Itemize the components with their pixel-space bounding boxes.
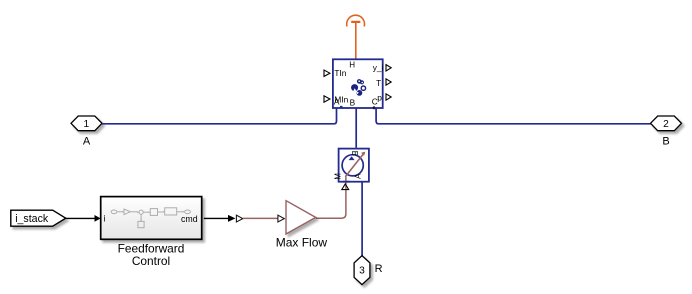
output triangle p bbox=[386, 94, 391, 100]
wire block C port to port2 bbox=[376, 108, 651, 123]
wire port1 to block A port bbox=[102, 108, 337, 123]
port tick C bbox=[373, 106, 375, 109]
i_stack signal tag bbox=[11, 210, 66, 226]
svg-text:2: 2 bbox=[663, 119, 669, 130]
outport 2 (B) hexagon bbox=[651, 116, 682, 131]
wire max flow to valve M (physical signal) bbox=[316, 177, 346, 219]
input triangle MIn bbox=[324, 96, 330, 102]
svg-text:T: T bbox=[376, 78, 381, 88]
svg-text:y_i: y_i bbox=[373, 62, 384, 72]
svg-text:i: i bbox=[104, 213, 106, 223]
wire feedforward to converter bbox=[204, 217, 228, 219]
svg-text:B: B bbox=[662, 136, 669, 148]
svg-text:p: p bbox=[377, 93, 382, 103]
svg-text:A: A bbox=[353, 173, 362, 179]
svg-text:TIn: TIn bbox=[334, 68, 346, 78]
valve block bbox=[339, 149, 369, 182]
svg-text:C: C bbox=[372, 96, 378, 106]
valve diagonal arrow bbox=[345, 152, 364, 176]
converter filled arrowhead bbox=[228, 215, 235, 222]
valve M input triangle bbox=[342, 184, 349, 190]
input triangle TIn bbox=[324, 70, 330, 76]
arrowhead into feedforward bbox=[95, 215, 101, 222]
svg-text:Control: Control bbox=[132, 254, 170, 268]
svg-text:1: 1 bbox=[83, 119, 89, 130]
svg-text:i_stack: i_stack bbox=[15, 213, 49, 225]
inport 1 (A) hexagon bbox=[71, 116, 102, 131]
feedforward control subsystem bbox=[101, 197, 202, 240]
humidifier block U1 bbox=[333, 59, 383, 108]
output triangle y_i bbox=[386, 65, 391, 71]
svg-text:B: B bbox=[350, 97, 356, 107]
physical signal wire converter to gain bbox=[243, 217, 278, 219]
svg-text:M: M bbox=[334, 173, 343, 180]
svg-text:cmd: cmd bbox=[181, 214, 198, 224]
wire block B port to valve bbox=[355, 108, 357, 147]
svg-text:3: 3 bbox=[359, 266, 365, 277]
valve bottom edge restored over wire bbox=[343, 181, 350, 183]
port tick A bbox=[340, 106, 343, 109]
svg-text:R: R bbox=[375, 263, 383, 275]
valve direction triangle bbox=[349, 156, 355, 160]
svg-text:A: A bbox=[83, 136, 91, 148]
wire valve A port to port3 bbox=[361, 182, 363, 256]
thumbnail sketch inside feedforward bbox=[111, 208, 190, 228]
output triangle T bbox=[386, 79, 391, 85]
svg-text:H: H bbox=[349, 61, 355, 70]
outport 3 (R) hexagon bbox=[354, 256, 370, 285]
svg-text:B: B bbox=[350, 151, 359, 156]
gain block Max Flow bbox=[286, 201, 316, 234]
svg-text:Max Flow: Max Flow bbox=[276, 236, 328, 250]
converter hollow triangle bbox=[236, 215, 242, 222]
valve circle bbox=[342, 155, 363, 176]
moist air droplets icon bbox=[351, 79, 366, 96]
wire i_stack to feedforward bbox=[66, 217, 95, 219]
thermal reference symbol (orange) bbox=[347, 15, 365, 59]
gain input triangle bbox=[278, 215, 284, 222]
svg-text:A: A bbox=[334, 96, 340, 106]
